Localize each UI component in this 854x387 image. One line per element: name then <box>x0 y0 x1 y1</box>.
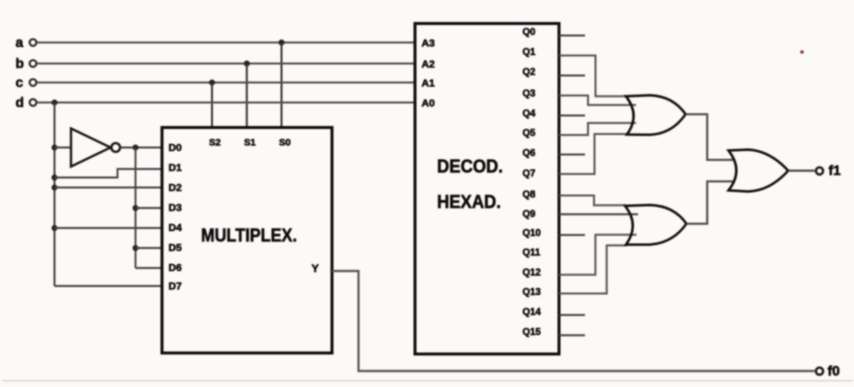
svg-text:A3: A3 <box>422 39 436 50</box>
wire S2 drop <box>211 83 213 128</box>
svg-text:D0: D0 <box>169 143 183 154</box>
wire Q2 stub <box>559 75 585 77</box>
svg-text:Q15: Q15 <box>523 327 542 338</box>
svg-text:f1: f1 <box>829 163 842 178</box>
wire notd to D6 <box>136 267 163 269</box>
svg-text:S2: S2 <box>209 138 221 149</box>
svg-text:A0: A0 <box>422 99 436 110</box>
speck artifact <box>800 50 804 54</box>
svg-text:D4: D4 <box>169 223 183 234</box>
decoder U3 box <box>415 24 559 355</box>
node d bus junction <box>52 100 58 106</box>
svg-text:S1: S1 <box>244 138 256 149</box>
svg-text:D5: D5 <box>169 243 183 254</box>
svg-text:Y: Y <box>312 263 320 275</box>
wire S1 drop <box>246 64 248 128</box>
svg-text:Q5: Q5 <box>523 128 537 139</box>
output terminal f1 <box>816 163 841 178</box>
wire Q15 stub <box>559 334 585 336</box>
wire G1 output to G3 <box>686 114 735 160</box>
wire f1 output <box>788 170 814 172</box>
wire a to A3 <box>37 42 415 44</box>
wire Q12 to G2 <box>559 235 637 275</box>
svg-text:Q6: Q6 <box>523 148 537 159</box>
input terminal d <box>16 95 37 110</box>
wire Y output to f0 <box>332 271 815 371</box>
or-gate G3 <box>729 150 789 192</box>
or-gate G2 <box>625 205 686 245</box>
svg-text:HEXAD.: HEXAD. <box>437 191 501 212</box>
wire d bus vertical <box>54 103 56 287</box>
wire G2 output to G3 <box>686 181 735 223</box>
node inverter output junction <box>133 145 139 151</box>
wire Q8 to G2 <box>559 196 626 206</box>
svg-text:DECOD.: DECOD. <box>437 156 503 177</box>
svg-text:Q13: Q13 <box>523 287 542 298</box>
svg-text:D1: D1 <box>169 163 183 174</box>
wire Q14 stub <box>559 314 585 316</box>
wire c to A1 <box>37 82 415 84</box>
input terminal b <box>16 56 37 71</box>
svg-text:d: d <box>16 95 24 110</box>
wire Q6 stub <box>559 154 585 156</box>
output terminal f0 <box>816 364 840 379</box>
svg-text:b: b <box>16 56 24 71</box>
svg-text:Q3: Q3 <box>523 89 537 100</box>
wire Q9 to G2 <box>559 213 638 215</box>
svg-text:Q10: Q10 <box>523 228 541 239</box>
or-gate G1 <box>626 95 686 135</box>
svg-text:D3: D3 <box>169 203 183 214</box>
wire d to D4 <box>55 227 163 229</box>
wire d to A0 <box>37 102 415 104</box>
input terminal a <box>16 35 37 50</box>
svg-text:D2: D2 <box>169 183 183 194</box>
wire Q13 to G2 <box>559 245 627 293</box>
svg-text:Q8: Q8 <box>523 190 537 201</box>
node a/S0 junction <box>279 40 285 46</box>
wire Q3 to G1 <box>559 96 636 106</box>
svg-text:A2: A2 <box>422 60 436 71</box>
node d/inverter junction <box>52 145 58 151</box>
scan edge line <box>2 380 853 382</box>
svg-text:Q7: Q7 <box>523 169 536 180</box>
svg-text:D6: D6 <box>169 263 183 274</box>
node d/D2 junction <box>52 185 58 191</box>
wire Q10 stub <box>559 234 585 236</box>
multiplexer U1 box <box>162 128 332 354</box>
wire d to D2 <box>55 187 163 189</box>
wire Q1 to G1 <box>559 56 626 97</box>
svg-text:f0: f0 <box>828 364 841 379</box>
node b/S1 junction <box>244 61 250 67</box>
wire notd to D3 <box>136 207 163 209</box>
svg-text:Q11: Q11 <box>523 248 541 259</box>
svg-text:MULTIPLEX.: MULTIPLEX. <box>201 225 297 246</box>
wire Q5 to G1 <box>559 123 636 135</box>
wire notd bus vertical <box>135 148 137 269</box>
svg-text:Q14: Q14 <box>523 307 542 318</box>
node d/D1 junction <box>52 175 58 181</box>
wire b to A2 <box>37 63 415 65</box>
svg-text:c: c <box>16 75 24 90</box>
node d/D4 junction <box>52 225 58 231</box>
wire Q0 stub <box>559 35 585 37</box>
node notd/D5 junction <box>133 245 139 251</box>
wire d to D1 <box>55 169 163 178</box>
wire Q4 stub <box>559 115 585 117</box>
svg-text:a: a <box>16 35 24 50</box>
svg-text:Q2: Q2 <box>523 67 536 78</box>
wire Q7 to G1 <box>559 134 628 174</box>
svg-text:Q4: Q4 <box>523 109 537 120</box>
svg-text:Q9: Q9 <box>523 209 537 220</box>
svg-text:D7: D7 <box>169 282 183 293</box>
wire notd to D5 <box>136 247 163 249</box>
wire S0 drop <box>281 43 283 128</box>
wire inverter output to D0 <box>120 147 162 149</box>
inverter U2 <box>71 129 120 167</box>
input terminal c <box>16 75 37 90</box>
wire d to D7 <box>55 285 163 287</box>
svg-text:Q0: Q0 <box>523 27 536 38</box>
svg-text:A1: A1 <box>422 79 436 90</box>
svg-text:Q12: Q12 <box>523 268 541 279</box>
node c/S2 junction <box>209 80 215 86</box>
svg-text:Q1: Q1 <box>523 47 537 58</box>
wire inverter input <box>55 147 72 149</box>
svg-text:S0: S0 <box>279 138 291 149</box>
node notd/D3 junction <box>133 205 139 211</box>
